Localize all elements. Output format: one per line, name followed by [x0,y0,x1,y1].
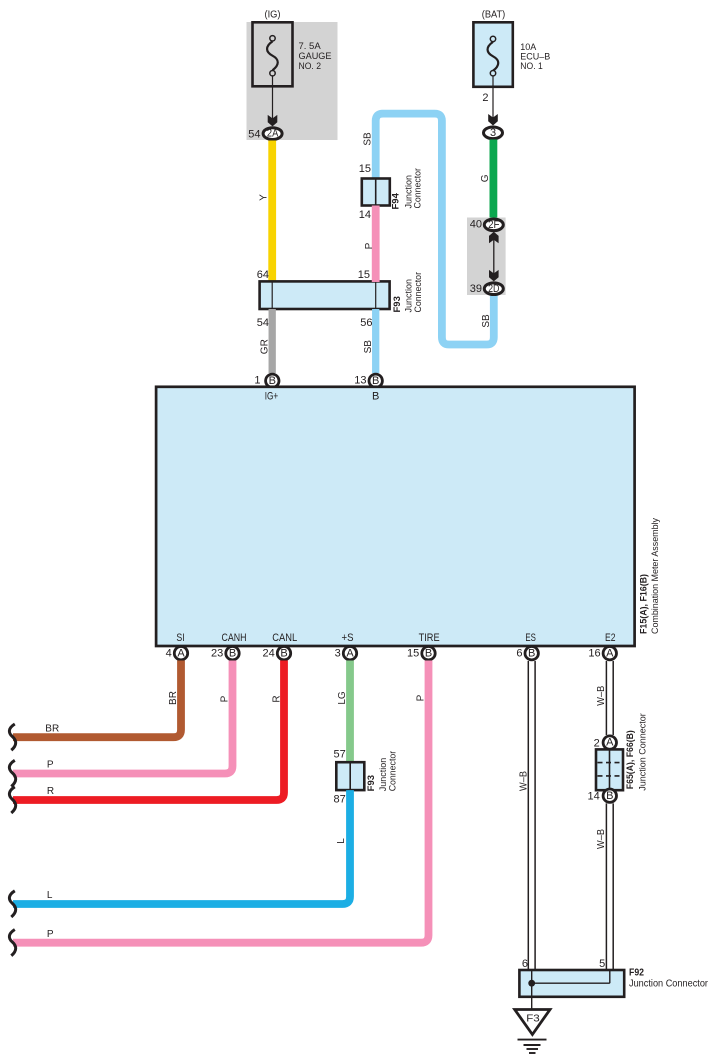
svg-text:B: B [280,647,287,659]
double arrow between 2F and 2D [489,232,499,282]
wire L (blue) F93 pin 87 to left break [9,790,350,917]
fuse 7.5A GAUGE NO. 2 [253,22,332,86]
svg-text:F65(A), F66(B): F65(A), F66(B) [625,730,636,789]
svg-text:ES: ES [525,632,536,644]
wire G (green) pin 3 to pin 2F [480,140,493,220]
wire: fuse BAT down to pin 3 with arrowhead, label 2 [482,76,497,125]
svg-text:LG: LG [337,691,348,705]
svg-text:A: A [177,647,185,659]
svg-text:B: B [269,375,276,387]
junction connector F65(A), F66(B) [596,713,649,791]
svg-text:64: 64 [257,269,269,281]
svg-text:54: 54 [257,317,269,329]
svg-text:SI: SI [176,632,184,644]
svg-text:6: 6 [516,648,522,660]
svg-text:W–B: W–B [596,685,607,705]
svg-text:B: B [229,647,236,659]
svg-text:B: B [528,647,535,659]
pin 13 B [354,374,382,387]
svg-text:Junction Connector: Junction Connector [629,977,708,989]
svg-text:B: B [425,647,432,659]
pin 4 A meter bottom [166,647,188,660]
svg-text:2: 2 [594,738,600,750]
svg-text:56: 56 [360,317,372,329]
svg-text:39: 39 [470,283,482,295]
wire: fuse IG down to pin 2A with arrowhead [268,76,278,126]
pin 2D (39) [470,283,504,295]
svg-text:F93: F93 [392,296,403,312]
svg-text:1: 1 [254,375,260,387]
svg-text:A: A [346,647,354,659]
wire LG (light green) pin 3 to F93 pin 57 [337,661,350,763]
pin 6 B meter bottom [516,647,538,660]
svg-text:G: G [480,174,491,182]
svg-text:15: 15 [407,648,419,660]
wire GR (gray) F93 pin 54 to meter pin 1 [260,309,273,373]
svg-text:Connector: Connector [413,272,424,313]
svg-text:SB: SB [363,132,374,146]
fuse 10A ECU-B NO. 1 [473,22,550,87]
wire W-B (E2 lower) F65 pin 14 to F92 pin 5 [596,803,613,970]
pin 16 A meter bottom [588,647,616,660]
ground symbol [518,1040,547,1053]
svg-text:BR: BR [168,691,179,705]
pin 2A (54) [248,128,282,141]
svg-text:W–B: W–B [518,771,529,791]
svg-text:6: 6 [522,958,528,970]
svg-text:14: 14 [359,209,371,221]
svg-text:54: 54 [248,128,260,140]
pin 15 B meter bottom [407,647,435,660]
svg-text:F94: F94 [391,192,402,209]
svg-text:R: R [271,695,282,702]
svg-text:3: 3 [335,648,341,660]
svg-text:5: 5 [599,958,605,970]
svg-text:4: 4 [166,648,172,660]
pin 23 B meter bottom [211,647,239,660]
pin 2 A (F65) [594,736,617,750]
svg-text:TIRE: TIRE [419,632,440,644]
junction connector F93 (upper) [257,269,424,329]
svg-text:CANL: CANL [272,632,297,644]
svg-text:B: B [606,790,613,802]
svg-text:NO. 1: NO. 1 [520,61,543,72]
svg-text:Y: Y [259,194,270,201]
wire W-B (E2 upper) pin 16 to F65 pin 2 [596,661,613,735]
pin 3 [484,127,503,139]
svg-text:P: P [47,929,54,940]
fuse block (IG) gray background [247,22,338,140]
svg-text:2A: 2A [267,128,279,140]
svg-text:CANH: CANH [222,632,247,644]
wire R (red) pin 24 to left break [9,661,284,814]
svg-text:2F: 2F [488,219,500,231]
svg-text:Junction Connector: Junction Connector [638,713,649,791]
svg-text:BR: BR [45,723,59,734]
svg-text:Connector: Connector [387,751,398,792]
svg-text:2: 2 [482,92,488,104]
pin 24 B meter bottom [263,647,291,660]
svg-text:(IG): (IG) [265,9,281,21]
svg-text:3: 3 [490,127,496,139]
wire SB (F93 pin 56 to meter pin 13) [363,309,376,373]
pin 2F (40) [470,219,504,231]
ground F3 triangle [515,997,550,1035]
svg-text:2D: 2D [488,283,499,295]
svg-text:W–B: W–B [596,829,607,849]
junction connector F93 (lower) [334,749,399,806]
svg-text:F3: F3 [526,1013,540,1025]
combination meter assembly F15(A), F16(B) [156,387,661,646]
svg-text:R: R [47,786,54,797]
svg-text:B: B [372,375,379,387]
svg-text:15: 15 [358,269,370,281]
svg-text:P: P [416,694,427,701]
wire W-B (ES) pin 6 to F92 pin 6 [518,661,535,970]
svg-text:24: 24 [263,648,275,660]
svg-text:E2: E2 [605,632,616,644]
svg-text:15: 15 [359,163,371,175]
svg-text:IG+: IG+ [265,390,279,402]
svg-text:Combination Meter Assembly: Combination Meter Assembly [650,518,661,634]
pin 14 B (F65) [588,789,617,802]
svg-text:87: 87 [334,793,346,805]
wire BR (brown) pin 4 to left break [9,661,181,751]
svg-text:P: P [220,695,231,702]
wire SB elbow from F94 top to pin 2D [363,114,494,345]
wiring inside F92: node dot and link [528,971,610,997]
wire P (pink) pin 15 TIRE to left break [9,661,428,956]
svg-text:F93: F93 [366,775,377,791]
pin 3 A meter bottom [335,647,357,660]
svg-text:GR: GR [260,339,271,354]
svg-text:A: A [606,647,614,659]
svg-text:40: 40 [470,219,482,231]
wire P (pink) F94 pin 14 to F93 pin 15 [364,206,376,283]
svg-text:23: 23 [211,648,223,660]
svg-text:SB: SB [363,340,374,354]
gray box 2F/2D [467,218,506,296]
wire Y (yellow) pin 2A to F93 pin 64 [259,141,273,283]
svg-text:P: P [364,242,375,249]
svg-text:P: P [47,760,54,771]
svg-text:A: A [606,737,614,749]
svg-text:+S: +S [342,632,354,644]
svg-text:Connector: Connector [413,168,424,209]
svg-text:57: 57 [334,749,346,761]
junction connector F94 [359,163,424,221]
junction connector F92 [519,958,708,997]
svg-text:L: L [336,838,347,844]
svg-text:B: B [372,390,379,402]
svg-text:F15(A), F16(B): F15(A), F16(B) [639,574,650,634]
svg-text:13: 13 [354,375,366,387]
svg-text:NO. 2: NO. 2 [299,61,322,72]
svg-text:SB: SB [481,314,492,328]
wire P (pink) pin 23 to left break [9,661,232,787]
svg-text:L: L [47,890,53,901]
svg-text:14: 14 [588,790,600,802]
svg-text:(BAT): (BAT) [482,9,506,21]
svg-text:16: 16 [588,648,600,660]
pin 1 B (IG+) [254,374,279,387]
